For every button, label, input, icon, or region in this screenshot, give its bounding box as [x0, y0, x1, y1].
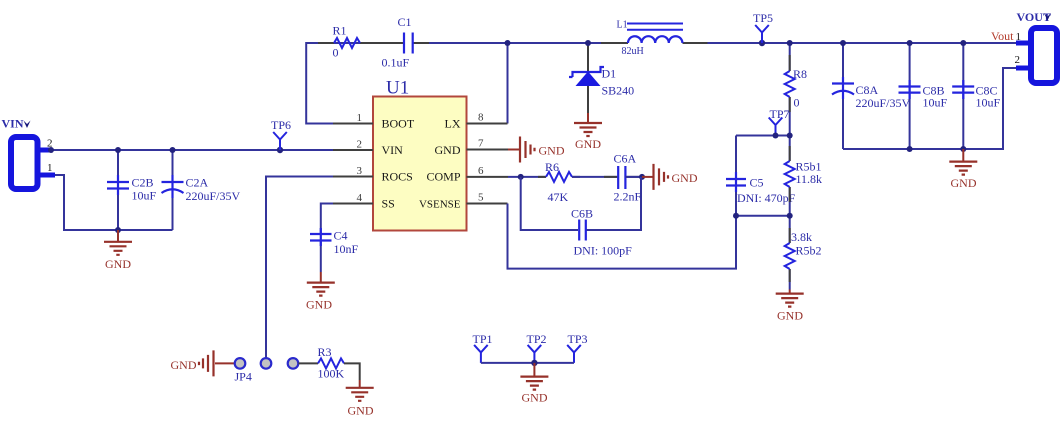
- capacitor C8B: [899, 43, 948, 149]
- svg-text:2: 2: [1015, 54, 1021, 66]
- pin 7 GND: [435, 138, 509, 158]
- wire COMP node to R6: [508, 176, 546, 178]
- ground GND at output rail: [949, 149, 977, 190]
- wire test point row: [481, 362, 574, 364]
- node LX junction at pin8 riser: [505, 40, 511, 46]
- capacitor C8A polarized: [832, 43, 911, 149]
- resistor R8: [785, 55, 807, 112]
- wire LX node rail: [508, 42, 1017, 44]
- svg-text:R3: R3: [318, 345, 332, 359]
- svg-text:DNI: 100pF: DNI: 100pF: [574, 244, 633, 258]
- pin 6 COMP: [426, 165, 508, 184]
- wire ROCS to JP4 pad: [266, 177, 333, 358]
- svg-text:3: 3: [357, 165, 363, 177]
- wire C6A to gnd junction: [625, 176, 642, 178]
- connector VOUT: [1015, 10, 1058, 83]
- test point TP1: [473, 332, 493, 363]
- ground GND sideways at C6A: [642, 164, 698, 190]
- pin 5 VSENSE: [419, 192, 508, 211]
- diode D1: [569, 43, 634, 113]
- svg-text:VSENSE: VSENSE: [419, 199, 461, 211]
- test point TP2: [527, 332, 547, 363]
- svg-text:3.8k: 3.8k: [791, 230, 812, 244]
- svg-text:TP1: TP1: [473, 332, 493, 346]
- svg-text:0: 0: [333, 46, 339, 60]
- svg-text:220uF/35V: 220uF/35V: [856, 96, 911, 110]
- jumper JP4 pad 1: [235, 358, 246, 369]
- node C2B bottom: [115, 227, 121, 233]
- svg-text:82uH: 82uH: [622, 46, 644, 57]
- capacitor C2A polarized: [162, 150, 241, 230]
- svg-text:GND: GND: [777, 309, 803, 323]
- node C8A top: [840, 40, 846, 46]
- ground GND below R5b2: [776, 290, 804, 323]
- svg-text:6: 6: [478, 165, 484, 177]
- svg-text:7: 7: [478, 138, 484, 150]
- ground GND below TP2: [520, 363, 548, 405]
- svg-text:0: 0: [794, 96, 800, 110]
- svg-text:L1: L1: [617, 20, 628, 31]
- test point TP5: [753, 11, 773, 46]
- svg-text:TP2: TP2: [527, 332, 547, 346]
- svg-text:2: 2: [357, 139, 363, 151]
- svg-text:BOOT: BOOT: [382, 117, 415, 131]
- svg-text:VOUT: VOUT: [1017, 10, 1051, 24]
- svg-text:1: 1: [47, 162, 53, 174]
- svg-text:GND: GND: [539, 144, 565, 158]
- svg-text:D1: D1: [602, 67, 617, 81]
- svg-text:C5: C5: [750, 176, 764, 190]
- svg-text:ROCS: ROCS: [382, 170, 413, 184]
- capacitor C2B: [107, 150, 157, 230]
- node VIN pin2: [48, 147, 54, 153]
- resistor R1: [318, 24, 376, 60]
- svg-text:TP6: TP6: [271, 118, 291, 132]
- wire VIN pin1 to ground rail: [55, 175, 173, 230]
- jumper JP4 pad 2: [261, 358, 272, 369]
- node C8B bottom: [907, 146, 913, 152]
- node R8 top junction: [787, 40, 793, 46]
- resistor R3: [318, 345, 345, 381]
- ground GND sideways at pin 7: [508, 137, 565, 163]
- svg-text:SS: SS: [382, 197, 395, 211]
- wire VSENSE feedback: [508, 204, 737, 269]
- svg-text:SB240: SB240: [602, 84, 635, 98]
- svg-text:TP5: TP5: [753, 11, 773, 25]
- svg-text:1: 1: [357, 112, 363, 124]
- resistor R5b2: [785, 228, 822, 282]
- svg-text:4: 4: [357, 192, 363, 204]
- svg-text:5: 5: [478, 192, 484, 204]
- node C2B top: [115, 147, 121, 153]
- pin 4 SS: [333, 192, 395, 211]
- resistor R5b1: [785, 146, 822, 202]
- op-amp U1 regulator IC body: [373, 78, 467, 231]
- capacitor C8C: [952, 43, 1000, 149]
- svg-text:DNI: 470pF: DNI: 470pF: [737, 191, 796, 205]
- svg-text:C6B: C6B: [571, 207, 593, 221]
- svg-text:11.8k: 11.8k: [796, 172, 823, 186]
- net label Vout: [991, 29, 1014, 43]
- svg-text:8: 8: [478, 112, 484, 124]
- capacitor C1: [376, 15, 429, 70]
- svg-text:10uF: 10uF: [923, 96, 948, 110]
- jumper JP4 ground sideways: [171, 350, 235, 376]
- svg-text:R8: R8: [793, 67, 807, 81]
- svg-text:COMP: COMP: [426, 170, 460, 184]
- svg-text:0.1uF: 0.1uF: [382, 56, 410, 70]
- pin 8 LX: [445, 112, 508, 131]
- node C8B top: [907, 40, 913, 46]
- node junction at D1: [585, 40, 591, 46]
- svg-text:C4: C4: [334, 229, 348, 243]
- svg-text:C2A: C2A: [186, 176, 209, 190]
- svg-text:GND: GND: [348, 404, 374, 418]
- test point TP6: [271, 118, 291, 153]
- svg-text:C2B: C2B: [132, 176, 154, 190]
- svg-text:GND: GND: [672, 171, 698, 185]
- wire pad3 to R3: [299, 362, 319, 364]
- wire R8 divider chain riser: [789, 43, 791, 290]
- svg-text:TP3: TP3: [568, 332, 588, 346]
- wire TP7 row: [736, 135, 790, 137]
- pin 3 ROCS: [333, 165, 413, 184]
- wire C6B feedback loop: [521, 177, 641, 230]
- jumper JP4 pad 3: [288, 358, 299, 369]
- svg-text:VIN: VIN: [2, 117, 24, 131]
- ground GND below C4: [306, 272, 335, 312]
- jumper JP4 label: [235, 370, 252, 384]
- capacitor C4: [310, 228, 359, 272]
- wire R6 to C6A: [572, 176, 618, 178]
- svg-text:GND: GND: [522, 391, 548, 405]
- node mid right junction: [787, 213, 793, 219]
- svg-text:R5b2: R5b2: [796, 244, 822, 258]
- wire BOOT loop from pin1 to R1/C1: [306, 43, 507, 124]
- wire output ground rail to VOUT pin2: [843, 68, 1016, 149]
- svg-text:C8A: C8A: [856, 83, 879, 97]
- svg-text:GND: GND: [105, 257, 131, 271]
- svg-text:GND: GND: [951, 176, 977, 190]
- svg-text:1: 1: [1016, 31, 1022, 43]
- svg-text:10nF: 10nF: [334, 242, 359, 256]
- svg-text:Vout: Vout: [991, 29, 1014, 43]
- node COMP junction: [518, 174, 524, 180]
- inductor L1: [601, 20, 708, 58]
- ground GND below R3: [346, 380, 374, 418]
- svg-text:VIN: VIN: [382, 143, 404, 157]
- svg-text:TP7: TP7: [769, 107, 789, 121]
- node mid left junction: [733, 213, 739, 219]
- svg-text:47K: 47K: [548, 190, 569, 204]
- wire R3 to ground: [344, 363, 360, 380]
- capacitor C5: [726, 136, 796, 216]
- capacitor C6B: [571, 207, 632, 258]
- node C2A top: [170, 147, 176, 153]
- wire divider mid node row: [736, 215, 790, 217]
- pin 2 VIN: [333, 139, 403, 158]
- svg-text:U1: U1: [386, 78, 409, 99]
- resistor R6: [538, 160, 580, 204]
- svg-text:10uF: 10uF: [976, 96, 1001, 110]
- wire SS to C4: [321, 204, 333, 235]
- svg-text:C6A: C6A: [614, 152, 637, 166]
- svg-text:2.2nF: 2.2nF: [614, 190, 642, 204]
- svg-text:R6: R6: [545, 160, 559, 174]
- node R8 bottom junction: [787, 133, 793, 139]
- node C8C bottom: [960, 146, 966, 152]
- node TP2 junction: [531, 360, 537, 366]
- svg-text:GND: GND: [575, 137, 601, 151]
- svg-text:220uF/35V: 220uF/35V: [186, 189, 241, 203]
- svg-text:GND: GND: [435, 143, 461, 157]
- pin 1 BOOT: [333, 112, 415, 131]
- svg-text:GND: GND: [171, 358, 197, 372]
- node TP7 junction: [773, 133, 779, 139]
- node C8C top: [960, 40, 966, 46]
- test point TP3: [567, 332, 587, 363]
- test point TP7: [769, 107, 790, 136]
- ground GND below C2B: [104, 230, 132, 271]
- svg-text:GND: GND: [306, 298, 332, 312]
- node C6A right junction: [639, 174, 645, 180]
- ground GND below D1: [574, 113, 602, 151]
- svg-text:10uF: 10uF: [132, 189, 157, 203]
- connector VIN: [2, 117, 56, 190]
- svg-text:100K: 100K: [318, 367, 345, 381]
- wire VIN net to pin2: [51, 149, 333, 151]
- capacitor C6A: [604, 152, 642, 204]
- svg-text:LX: LX: [445, 117, 461, 131]
- svg-text:JP4: JP4: [235, 370, 252, 384]
- svg-text:R1: R1: [333, 24, 347, 38]
- svg-text:C1: C1: [398, 15, 412, 29]
